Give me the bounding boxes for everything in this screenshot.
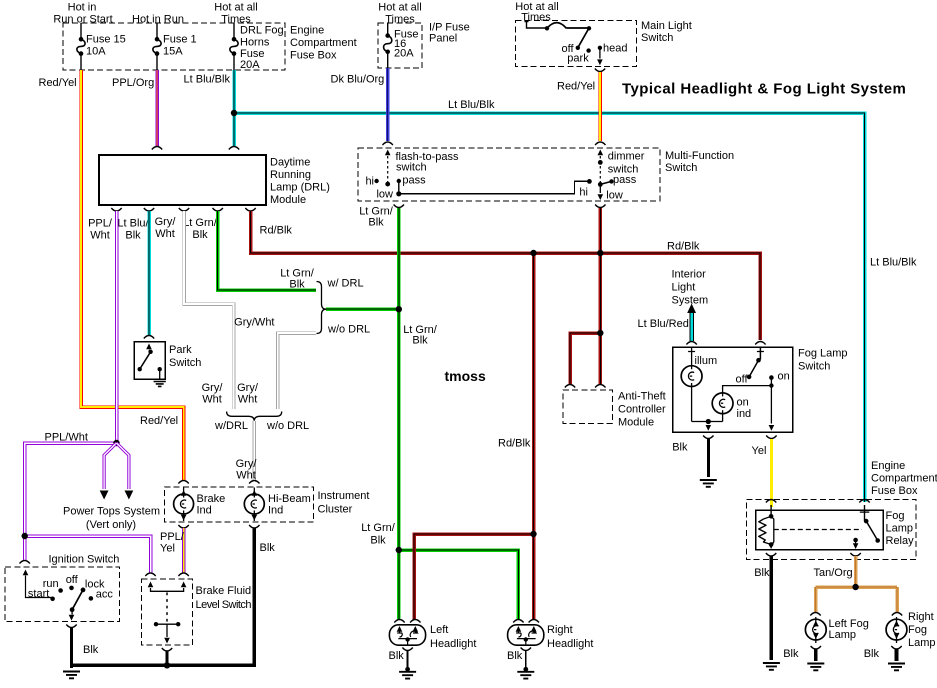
wire Rd/Blk branch to anti-theft left pin xyxy=(570,333,600,384)
svg-text:Panel: Panel xyxy=(429,33,457,45)
svg-text:Right: Right xyxy=(547,624,573,636)
svg-text:Gry/: Gry/ xyxy=(236,458,258,470)
svg-text:Blk: Blk xyxy=(672,442,688,454)
wire Lt Grn/Blk DRL to w/DRL brace xyxy=(218,211,316,290)
svg-text:PPL/Org: PPL/Org xyxy=(112,77,154,89)
svg-text:Red/Yel: Red/Yel xyxy=(557,81,595,93)
svg-text:on: on xyxy=(778,371,790,383)
wire Rd/Blk DRL to fog lamp switch xyxy=(251,211,761,340)
connectors at DRL module bottom xyxy=(111,208,255,211)
svg-text:head: head xyxy=(603,43,627,55)
label fog on xyxy=(778,371,790,383)
label Lt Grn/Blk under ftp xyxy=(359,206,394,229)
connector below left headlight xyxy=(402,648,412,651)
svg-text:Brake Fluid: Brake Fluid xyxy=(196,585,252,597)
svg-text:Wht: Wht xyxy=(155,228,175,240)
label dim hi xyxy=(579,187,588,199)
wire PPL/Yel brake ind to brake fluid switch xyxy=(182,528,186,573)
node left headlight ground xyxy=(405,667,410,672)
svg-text:Brake: Brake xyxy=(197,493,226,505)
svg-text:Lamp: Lamp xyxy=(829,629,857,641)
label DRL fog horns fuse xyxy=(240,25,284,72)
svg-text:Light: Light xyxy=(672,282,696,294)
svg-text:20A: 20A xyxy=(394,48,414,60)
wire Lt Blu/Blk main run to fog lamp relay xyxy=(234,113,865,502)
connectors above anti-theft module xyxy=(565,385,606,388)
fuse F16 20A xyxy=(384,23,392,68)
label park xyxy=(567,53,589,65)
connectors above left headlight xyxy=(394,620,420,623)
label Lt Blu/Blk right xyxy=(870,257,917,269)
connectors above fog lamps xyxy=(810,613,902,616)
svg-text:Left: Left xyxy=(430,624,448,636)
wire Red/Yel main light switch to dimmer xyxy=(598,72,602,141)
svg-text:Engine: Engine xyxy=(290,25,324,37)
wire Blk ignition to ground bus xyxy=(70,627,73,668)
svg-text:Compartment: Compartment xyxy=(290,37,357,49)
label Tan/Org xyxy=(814,567,853,579)
label Red/Yel MLS xyxy=(557,81,595,93)
svg-text:Ignition Switch: Ignition Switch xyxy=(49,554,120,566)
label hot-in-run-or-start xyxy=(53,2,112,26)
svg-text:Blk: Blk xyxy=(83,644,99,656)
relay switch xyxy=(853,505,880,549)
wire PPL/Org from fuse 1 to DRL module xyxy=(155,70,159,146)
connectors above right headlight xyxy=(513,620,539,623)
svg-text:DRL Fog: DRL Fog xyxy=(240,25,284,37)
svg-text:Blk: Blk xyxy=(260,542,276,554)
label on ind xyxy=(737,397,752,421)
label PPL/Yel xyxy=(160,531,185,555)
ground at park switch xyxy=(154,382,166,387)
engine compartment fuse box (top) xyxy=(63,23,285,70)
connector above fog lamp switch feed xyxy=(755,342,765,345)
svg-text:Power Tops System: Power Tops System xyxy=(63,506,160,518)
wire Dk Blu/Org fuse16 to flash-to-pass xyxy=(386,68,390,141)
svg-text:Horns: Horns xyxy=(240,37,270,49)
brace w/DRL w/o DRL (bottom) xyxy=(227,412,282,421)
label right headlight xyxy=(547,624,593,650)
wire Blk left fog lamp ground xyxy=(814,649,818,661)
svg-text:PPL/: PPL/ xyxy=(88,218,113,230)
svg-text:Lamp: Lamp xyxy=(908,637,936,649)
label ignition switch xyxy=(49,554,120,566)
label w/o DRL bottom xyxy=(266,420,309,432)
label hot-at-all-times F3 xyxy=(214,2,257,26)
wire Rd/Blk branch to left headlight xyxy=(414,534,533,620)
svg-text:Controller: Controller xyxy=(618,404,666,416)
node dimmer hi contact xyxy=(587,179,592,184)
label Gry/Wht out xyxy=(155,216,177,240)
label fuse 16 value xyxy=(394,29,418,60)
junction lt blu/blk at fuse drop xyxy=(231,110,237,116)
label Rd/Blk right xyxy=(667,241,700,253)
svg-text:w/o DRL: w/o DRL xyxy=(327,324,370,336)
label Lt Blu/Blk mid xyxy=(448,99,495,111)
svg-text:Rd/Blk: Rd/Blk xyxy=(260,225,293,237)
label left fog lamp xyxy=(829,618,869,641)
svg-text:Dk Blu/Org: Dk Blu/Org xyxy=(331,74,385,86)
svg-text:Ind: Ind xyxy=(197,505,212,517)
power tops branch arrows xyxy=(100,443,134,500)
label fog off xyxy=(735,374,748,386)
label Gry/Wht left pair xyxy=(202,382,224,406)
wire Blk fog switch to ground xyxy=(707,439,710,477)
wire Rd/Blk dimmer low down to anti-theft xyxy=(599,208,603,384)
connector above dimmer switch xyxy=(595,142,605,145)
label main light switch xyxy=(641,20,692,44)
wire Red/Yel from fuse 15 to brake ind xyxy=(81,70,184,480)
wire Blk brake fluid switch to bus xyxy=(165,651,168,666)
svg-text:Headlight: Headlight xyxy=(547,638,593,650)
ground right fog lamp xyxy=(888,664,905,671)
junction ground bus xyxy=(164,662,170,668)
ground below ignition xyxy=(63,672,80,679)
svg-text:20A: 20A xyxy=(240,59,260,71)
fog lamp relay box xyxy=(756,510,883,550)
svg-text:Blk: Blk xyxy=(289,279,305,291)
label Lt Blu/Blk out xyxy=(117,218,149,242)
brace w/DRL w/o DRL (right) xyxy=(317,282,327,334)
label w/DRL bottom xyxy=(214,420,248,432)
svg-text:park: park xyxy=(567,53,589,65)
svg-text:Lamp (DRL): Lamp (DRL) xyxy=(270,182,330,194)
svg-text:Hot in: Hot in xyxy=(68,2,97,14)
connector below brake fluid level switch xyxy=(162,648,172,651)
svg-text:Rd/Blk: Rd/Blk xyxy=(498,438,531,450)
svg-text:w/DRL: w/DRL xyxy=(214,420,248,432)
wire Blk left headlight ground xyxy=(407,650,409,669)
svg-text:Blk: Blk xyxy=(864,648,880,660)
lamp hi-beam ind xyxy=(244,488,264,522)
label run xyxy=(43,578,59,590)
svg-text:Fuse 15: Fuse 15 xyxy=(86,34,126,46)
wire Lt Blu/Blk DRL to park switch xyxy=(147,211,151,336)
label tmoss xyxy=(445,368,486,384)
fog lamp switch box xyxy=(673,347,793,432)
svg-text:Lt Blu/Blk: Lt Blu/Blk xyxy=(184,74,231,86)
svg-text:run: run xyxy=(43,578,59,590)
label Lt Blu/Blk top xyxy=(184,74,231,86)
wire Lt Blu/Blk from fuse DRL to DRL module xyxy=(232,70,236,146)
anti-theft controller module box xyxy=(563,390,612,424)
svg-text:Yel: Yel xyxy=(752,445,767,457)
label ftp hi xyxy=(365,176,374,188)
label fuse 15 value xyxy=(86,34,126,58)
svg-text:Lt Blu/: Lt Blu/ xyxy=(117,218,149,230)
svg-text:Compartment: Compartment xyxy=(871,473,937,485)
connector above hi-beam ind xyxy=(249,481,259,484)
connectors at DRL module top xyxy=(152,147,239,150)
wire Blk right fog lamp ground xyxy=(895,649,899,661)
label multi-function switch xyxy=(665,150,734,174)
svg-text:Blk: Blk xyxy=(783,648,799,660)
label Dk Blu/Org xyxy=(331,74,385,86)
ground left headlight xyxy=(399,672,416,679)
dimmer switch internals xyxy=(598,150,614,201)
label fog lamp switch xyxy=(798,348,848,373)
wire Tan/Org relay to fog lamps xyxy=(816,556,898,612)
fuse F15 10A xyxy=(77,23,85,70)
svg-text:illum: illum xyxy=(695,355,718,367)
svg-text:w/ DRL: w/ DRL xyxy=(327,278,364,290)
svg-text:15A: 15A xyxy=(163,46,183,58)
connector below dimmer low xyxy=(595,205,605,208)
park switch box xyxy=(134,342,165,379)
svg-text:10A: 10A xyxy=(86,46,106,58)
wire Lt Grn/Blk brace output to main green xyxy=(326,307,399,311)
svg-text:Wht: Wht xyxy=(202,394,222,406)
connector above fog lamp switch illum xyxy=(686,342,696,345)
connectors below fog lamp switch xyxy=(703,436,777,439)
svg-text:switch: switch xyxy=(396,162,427,174)
svg-text:Gry/: Gry/ xyxy=(237,382,259,394)
label I/P fuse panel xyxy=(429,22,470,45)
label Blk right hl xyxy=(507,650,523,662)
svg-text:Red/Yel: Red/Yel xyxy=(140,415,178,427)
junction tan/org xyxy=(852,584,858,590)
svg-text:hi: hi xyxy=(579,187,588,199)
svg-text:PPL/: PPL/ xyxy=(160,531,185,543)
svg-text:Daytime: Daytime xyxy=(270,157,310,169)
connectors below instrument cluster xyxy=(178,525,259,528)
svg-text:Gry/: Gry/ xyxy=(202,382,224,394)
svg-text:Instrument: Instrument xyxy=(318,490,370,502)
svg-text:Lamp: Lamp xyxy=(886,523,914,535)
svg-text:Wht: Wht xyxy=(238,394,258,406)
svg-text:pass: pass xyxy=(613,174,637,186)
svg-text:Lt Blu/Blk: Lt Blu/Blk xyxy=(870,257,917,269)
label Lt Grn/Blk out xyxy=(183,217,218,241)
label dimmer switch xyxy=(608,151,645,176)
svg-text:acc: acc xyxy=(96,589,114,601)
label Lt Grn/Blk lower xyxy=(361,522,396,547)
label Red/Yel left xyxy=(39,77,77,89)
svg-text:Lt Grn/: Lt Grn/ xyxy=(361,522,396,534)
svg-text:Interior: Interior xyxy=(672,269,707,281)
svg-text:Engine: Engine xyxy=(871,460,905,472)
instrument cluster box xyxy=(165,487,314,522)
right headlight xyxy=(508,625,544,645)
label fog lamp relay xyxy=(886,510,915,547)
label Blk right fog xyxy=(864,648,880,660)
wire ftp low to dimmer hi xyxy=(399,181,590,193)
label daytime running lamp module xyxy=(270,157,330,207)
label start xyxy=(28,588,49,600)
svg-text:Gry/Wht: Gry/Wht xyxy=(234,317,274,329)
label Blk left fog xyxy=(783,648,799,660)
label Blk relay xyxy=(754,567,770,579)
fuse F1 15A xyxy=(153,23,161,70)
label Rd/Blk out xyxy=(260,225,293,237)
connector below flash-to-pass low xyxy=(394,205,404,208)
ground below relay xyxy=(763,663,780,670)
lamp left fog xyxy=(805,617,826,643)
svg-text:Relay: Relay xyxy=(886,535,915,547)
brake fluid level switch box xyxy=(142,579,193,645)
svg-text:Typical Headlight & Fog Light: Typical Headlight & Fog Light System xyxy=(622,81,906,98)
label dim low xyxy=(606,190,623,202)
label hot-at-all-times F16 xyxy=(378,2,421,26)
svg-text:Multi-Function: Multi-Function xyxy=(665,150,734,162)
svg-text:pass: pass xyxy=(402,175,426,187)
label flash-to-pass switch xyxy=(396,151,459,174)
wire Yel fog switch to relay xyxy=(770,439,773,507)
label Rd/Blk headlights xyxy=(498,438,531,450)
svg-text:Fuse Box: Fuse Box xyxy=(871,485,918,497)
label off park head xyxy=(561,43,574,55)
svg-text:PPL/Wht: PPL/Wht xyxy=(45,432,88,444)
svg-text:Blk: Blk xyxy=(370,535,386,547)
DRL module box xyxy=(99,155,266,205)
label acc xyxy=(96,589,114,601)
label lock xyxy=(85,579,105,591)
svg-text:Lt Grn/: Lt Grn/ xyxy=(183,217,218,229)
wire Blk relay coil ground xyxy=(770,556,773,660)
svg-text:Hi-Beam: Hi-Beam xyxy=(268,493,311,505)
svg-text:Switch: Switch xyxy=(169,357,201,369)
label Blk ignition xyxy=(83,644,99,656)
wire PPL/Wht DRL to power tops and ignition xyxy=(115,211,119,443)
svg-text:Park: Park xyxy=(169,344,192,356)
label head xyxy=(603,43,627,55)
wire Lt Blu/Red to interior light system xyxy=(687,304,696,342)
multi-function switch box xyxy=(358,148,660,201)
label Blk hibeam xyxy=(260,542,276,554)
label park switch xyxy=(169,344,201,369)
connector above brake ind xyxy=(178,481,188,484)
main light switch internals xyxy=(525,22,603,66)
svg-text:Blk: Blk xyxy=(412,335,428,347)
connectors at relay fuse box top xyxy=(766,500,870,503)
svg-text:Red/Yel: Red/Yel xyxy=(39,77,77,89)
svg-text:Fog: Fog xyxy=(886,510,905,522)
label right fog lamp xyxy=(908,611,936,649)
label Blk fog switch xyxy=(672,442,688,454)
label Lt Blu/Red xyxy=(638,318,689,330)
svg-text:Lt Blu/Red: Lt Blu/Red xyxy=(638,318,689,330)
svg-text:tmoss: tmoss xyxy=(445,368,486,384)
brake fluid level switch internals xyxy=(148,582,187,644)
svg-text:Tan/Org: Tan/Org xyxy=(814,567,853,579)
svg-text:Module: Module xyxy=(270,194,306,206)
label Gry/Wht at brace xyxy=(234,317,274,329)
wire Blk right headlight ground xyxy=(525,650,527,669)
label ftp pass xyxy=(402,175,426,187)
svg-text:Hot at all: Hot at all xyxy=(378,2,421,14)
connectors below relay xyxy=(766,553,861,556)
fuse DRL-Fog-Horns 20A xyxy=(230,23,238,70)
label off ign xyxy=(66,574,79,586)
park switch internals xyxy=(138,336,162,380)
I/P fuse panel box xyxy=(378,23,422,68)
label engine compartment fuse box right xyxy=(871,460,937,497)
label instrument cluster xyxy=(318,490,370,516)
wire PPL/Wht horizontal and down xyxy=(25,443,117,560)
wire Blk hi-beam ind to ground bus xyxy=(71,528,254,665)
label Gry/Wht right pair xyxy=(237,382,259,406)
label anti-theft controller module xyxy=(618,391,666,429)
label fuse 1 value xyxy=(163,34,197,58)
svg-text:Wht: Wht xyxy=(236,470,256,482)
label Lt Grn/Blk at brace xyxy=(280,268,315,291)
svg-text:Gry/: Gry/ xyxy=(155,216,177,228)
svg-text:Fog: Fog xyxy=(908,624,927,636)
ignition switch box xyxy=(5,567,120,621)
connector below ignition switch xyxy=(66,625,76,628)
connector below right headlight xyxy=(521,648,531,651)
svg-text:Blk: Blk xyxy=(125,230,141,242)
svg-text:Yel: Yel xyxy=(160,543,175,555)
svg-text:on: on xyxy=(737,397,749,409)
label brake fluid level switch xyxy=(196,585,252,611)
wire Rd/Blk branch down to headlights xyxy=(532,253,536,620)
wire Gry/Wht DRL jog down xyxy=(184,211,234,409)
junctions rd/blk xyxy=(530,250,603,537)
label interior light system xyxy=(672,269,709,307)
junction ppl/wht split xyxy=(22,440,120,539)
svg-text:Fuse Box: Fuse Box xyxy=(290,50,337,62)
lamp brake ind xyxy=(174,488,194,522)
relay coil xyxy=(759,505,774,549)
connector above ignition switch xyxy=(20,561,30,564)
svg-text:Blk: Blk xyxy=(368,217,384,229)
wire PPL/Wht branch to brake fluid switch xyxy=(25,536,151,573)
label PPL/Wht out xyxy=(88,218,113,242)
wire Lt Grn/Blk branch to right headlight xyxy=(399,550,519,620)
svg-text:Cluster: Cluster xyxy=(318,504,353,516)
label w/ DRL xyxy=(327,278,364,290)
svg-text:ind: ind xyxy=(737,408,752,420)
svg-text:Hot at all: Hot at all xyxy=(214,2,257,14)
svg-text:low: low xyxy=(376,188,393,200)
svg-text:Blk: Blk xyxy=(192,229,208,241)
svg-text:Fuse 1: Fuse 1 xyxy=(163,34,197,46)
svg-text:Module: Module xyxy=(618,417,654,429)
junction green xyxy=(396,306,402,553)
svg-text:Switch: Switch xyxy=(665,162,697,174)
label engine compartment fuse box xyxy=(290,25,357,62)
label Lt Grn/Blk mid xyxy=(403,324,438,347)
label Yel xyxy=(752,445,767,457)
svg-text:Blk: Blk xyxy=(389,650,405,662)
svg-text:System: System xyxy=(672,295,709,307)
label power tops system xyxy=(63,506,160,532)
ground left fog lamp xyxy=(807,664,824,671)
title xyxy=(622,81,906,98)
svg-text:off: off xyxy=(735,374,748,386)
svg-text:Main Light: Main Light xyxy=(641,20,692,32)
connector above flash-to-pass xyxy=(383,142,393,145)
svg-text:Lt Blu/Blk: Lt Blu/Blk xyxy=(448,99,495,111)
wire Gry/Wht to hi-beam ind xyxy=(253,421,257,482)
ground below fog lamp switch xyxy=(700,480,717,487)
label PPL/Wht xyxy=(45,432,88,444)
svg-text:Run or Start: Run or Start xyxy=(53,14,112,26)
svg-text:Level Switch: Level Switch xyxy=(196,599,252,611)
svg-text:Switch: Switch xyxy=(798,361,830,373)
label left headlight xyxy=(430,624,476,650)
svg-text:Switch: Switch xyxy=(641,32,673,44)
svg-text:Times: Times xyxy=(385,14,415,26)
label brake ind xyxy=(197,493,226,517)
label hot-at-all-times MLS xyxy=(515,1,558,24)
svg-text:Ind: Ind xyxy=(268,505,283,517)
lamp on ind xyxy=(712,393,733,422)
relay linkage dashed xyxy=(774,529,862,531)
svg-text:w/o DRL: w/o DRL xyxy=(266,420,309,432)
svg-text:dimmer: dimmer xyxy=(608,151,645,163)
